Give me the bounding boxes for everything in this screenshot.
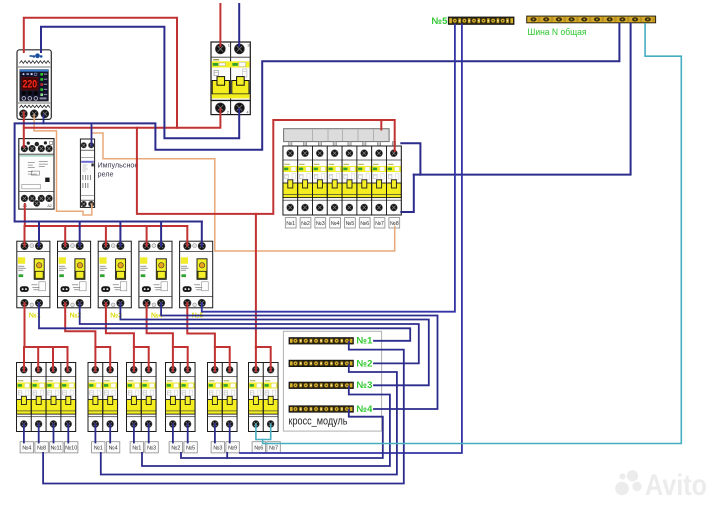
- wire blue: breaker neutral to label: [94, 424, 96, 443]
- wire blue: breaker neutral to label: [187, 424, 189, 443]
- circuit breaker group-row pole 8: [387, 146, 402, 215]
- circuit breaker bottom group 1 pole 3: [46, 363, 61, 432]
- wire red: relay to contactor feed: [23, 112, 25, 147]
- circuit breaker bottom group 6 pole 2: [263, 363, 278, 432]
- wire red: group3 bar and stub: [134, 347, 149, 371]
- svg-text:№1: №1: [94, 445, 103, 451]
- label №1 under row breaker: [285, 218, 296, 228]
- wire red: RCD2 out to group2: [65, 303, 95, 371]
- wire blue: link to N busbar: [414, 24, 631, 175]
- bottom group 4 outline: [166, 363, 196, 432]
- label №3 under bottom group 3: [145, 442, 158, 453]
- cross-module neutral bar №1: [289, 338, 353, 344]
- wire blue: breaker neutral to label: [214, 424, 216, 443]
- wire red: drop to RCD2 input: [64, 226, 66, 246]
- svg-text:№1: №1: [286, 221, 295, 227]
- svg-text:№4: №4: [109, 445, 118, 451]
- RCD (residual current device) №1: [17, 241, 50, 308]
- circuit breaker bottom group 1 pole 4: [61, 363, 76, 432]
- label №11 under bottom group 1: [50, 442, 63, 453]
- svg-text:Шина N общая: Шина N общая: [528, 27, 587, 38]
- svg-text:№3: №3: [147, 445, 156, 451]
- label №6 under bottom group 6: [252, 442, 265, 453]
- svg-text:№6: №6: [254, 445, 263, 451]
- bottom group 3 outline: [127, 363, 157, 432]
- busbar comb over group breakers: [284, 129, 396, 147]
- label №8 under bottom group 1: [35, 442, 48, 453]
- svg-text:№3: №3: [357, 380, 373, 391]
- wire blue: bar №2 to bottom group2 neutrals: [101, 365, 397, 475]
- svg-text:№7: №7: [375, 221, 384, 227]
- wire red: group1 bar: [25, 346, 68, 348]
- label №8 under row breaker: [389, 218, 400, 228]
- svg-text:A2: A2: [47, 204, 51, 208]
- svg-text:№1: №1: [357, 336, 374, 347]
- wire blue: relay top to QF1 bottom loop: [41, 27, 239, 139]
- wire blue: breaker neutral to label: [38, 424, 40, 443]
- circuit breaker bottom group 2 pole 2: [103, 363, 118, 432]
- wire blue: bar №3 to bottom group3 neutrals: [142, 387, 390, 467]
- wire red: group6 bar and stub: [256, 347, 271, 371]
- label №7 under row breaker: [374, 218, 385, 228]
- label №10 under bottom group 1: [65, 442, 78, 453]
- wire red: QF1 output bus: [24, 109, 221, 128]
- svg-text:№3: №3: [316, 221, 325, 227]
- label №4 under bottom group 2: [106, 442, 119, 453]
- cross-module neutral bar №3: [289, 382, 353, 388]
- circuit breaker group-row pole 4: [327, 146, 342, 215]
- label №5 under row breaker: [345, 218, 356, 228]
- wire blue: bar №4 to bottom group4 neutrals: [181, 410, 383, 458]
- wire red: main riser to bottom group 6: [137, 128, 256, 348]
- svg-text:№2: №2: [357, 358, 373, 369]
- circuit breaker bottom group 2 pole 1: [88, 363, 103, 432]
- wire blue: breaker neutral to label: [23, 424, 25, 443]
- wire red: stub into comb: [380, 120, 382, 130]
- wire red: RCD1 out to group1 bar: [24, 303, 26, 347]
- wire blue: drop to RCD1 neutral in: [38, 222, 40, 247]
- busbar N (Шина N общая): [527, 16, 656, 23]
- wire blue: drop to impulse relay coil: [91, 123, 93, 146]
- circuit breaker bottom group 3 pole 2: [141, 363, 156, 432]
- wire red: drop to RCD4 input: [146, 226, 148, 246]
- wire orange: impulse relay to circuit 8: [92, 133, 395, 251]
- cross-module neutral bar №2: [289, 360, 353, 366]
- RCD (residual current device) №3: [98, 241, 131, 308]
- wire blue: relay neutral stub: [43, 115, 45, 123]
- label №4 under bottom group 1: [20, 442, 33, 453]
- label №7 under bottom group 6: [267, 442, 280, 453]
- wire blue: drop to RCD4 neutral in: [160, 222, 162, 247]
- wire blue: supply neutral to QF1 top: [238, 4, 240, 46]
- bottom group 5 outline: [208, 363, 238, 432]
- label №5 under bottom group 4: [184, 442, 197, 453]
- wire blue: RCD3 neutral to bar №3: [120, 303, 428, 385]
- circuit breaker group-row pole 7: [372, 146, 387, 215]
- wire blue: breaker neutral to label: [133, 424, 135, 443]
- wire blue: breaker neutral to label: [148, 424, 150, 443]
- svg-text:№4: №4: [22, 445, 31, 451]
- label: impulse relay text: [98, 161, 139, 179]
- voltage relay A1: [17, 50, 51, 120]
- label №3 under row breaker: [315, 218, 326, 228]
- wire red: drop to RCD1 input: [24, 226, 26, 246]
- svg-text:№5: №5: [186, 445, 195, 451]
- wire blue: row top right link: [401, 143, 420, 174]
- wire red: phase bus over RCDs: [25, 225, 188, 227]
- bottom group 6 outline: [249, 363, 279, 432]
- svg-text:№9: №9: [228, 445, 237, 451]
- circuit breaker bottom group 4 pole 1: [166, 363, 181, 432]
- wire red: group1 stub to pole: [52, 347, 54, 371]
- wire blue: RCD2 neutral to bar №2: [80, 303, 419, 363]
- wire blue: breaker neutral to label: [172, 424, 174, 443]
- svg-text:№11: №11: [50, 445, 62, 451]
- svg-text:№7: №7: [269, 445, 278, 451]
- label №2 under bottom group 4: [169, 442, 182, 453]
- circuit breaker group-row pole 2: [298, 146, 313, 215]
- watermark: Avito logo: [615, 469, 707, 502]
- wire red: group2 bar and stub: [95, 347, 110, 371]
- label №9 under bottom group 5: [226, 442, 239, 453]
- label №3 under bottom group 5: [211, 442, 224, 453]
- wire blue: breaker neutral to label: [53, 424, 55, 443]
- impulse relay K1: [80, 139, 94, 207]
- svg-text:реле: реле: [98, 170, 114, 179]
- circuit breaker bottom group 5 pole 2: [222, 363, 237, 432]
- circuit breaker bottom group 3 pole 1: [127, 363, 142, 432]
- svg-text:№5: №5: [432, 16, 449, 27]
- svg-text:№4: №4: [357, 404, 374, 415]
- circuit breaker group-row pole 1: [283, 146, 298, 215]
- bottom group 2 outline: [88, 363, 118, 432]
- circuit breaker group-row pole 5: [342, 146, 357, 215]
- wire red: feed to comb row: [256, 120, 395, 214]
- svg-text:№3: №3: [213, 445, 222, 451]
- svg-text:№8: №8: [37, 445, 46, 451]
- svg-text:№6: №6: [360, 221, 369, 227]
- wire blue: RCD5 neutral to busbar №5: [202, 24, 455, 311]
- svg-text:220: 220: [23, 78, 38, 90]
- wire blue: bar №1 to bottom group1 neutrals: [43, 342, 404, 484]
- label №1 under bottom group 3: [130, 442, 143, 453]
- RCD (residual current device) №5: [180, 241, 213, 308]
- wire red: RCD5 out to group5: [187, 303, 215, 371]
- wire blue: breaker neutral to label: [229, 424, 231, 443]
- wire red: group1 stub to pole: [37, 347, 39, 371]
- circuit breaker group-row pole 3: [313, 146, 328, 215]
- wire red: group1 stub to pole: [23, 347, 25, 371]
- wire blue: drop to RCD5 neutral in: [201, 222, 203, 247]
- wire red: voltage relay top to QF1 bottom loop: [24, 18, 177, 128]
- circuit breaker bottom group 1 pole 1: [17, 363, 32, 432]
- contactor KM1: [19, 139, 54, 210]
- circuit breaker QF1 (2-pole main): [211, 42, 250, 115]
- wire blue: stub group5 neutral: [226, 453, 228, 458]
- wire red: RCD3 out to group3: [106, 303, 134, 371]
- wire blue: busbar №5 second feeder: [240, 24, 462, 453]
- busbar №5: [448, 17, 514, 24]
- wire blue: drop to RCD3 neutral in: [119, 222, 121, 247]
- bottom group 1 outline: [17, 363, 76, 432]
- cross module box: [283, 331, 381, 431]
- wire blue: N busbar to neutral bus over RCDs: [15, 24, 620, 222]
- wire blue: row bottom right link: [401, 175, 414, 212]
- wire orange: relay aux to impulse relay bottom: [34, 115, 92, 215]
- svg-text:№2: №2: [301, 221, 310, 227]
- svg-text:№2: №2: [171, 445, 180, 451]
- wire red: contactor out down: [24, 204, 26, 226]
- wire red: drop to RCD3 input: [105, 226, 107, 246]
- wire red: group4 bar and stub: [173, 347, 188, 371]
- wire blue: drop to RCD2 neutral in: [79, 222, 81, 247]
- wire teal: group6 neutral to N busbar: [263, 24, 682, 444]
- wire blue: breaker neutral to label: [109, 424, 111, 443]
- label №4 under row breaker: [330, 218, 341, 228]
- wire red: RCD4 out to group4: [147, 303, 173, 371]
- wire blue: RCD1 neutral to bar №1: [39, 303, 410, 341]
- circuit breaker bottom group 6 pole 1: [249, 363, 264, 432]
- label №2 under row breaker: [300, 218, 311, 228]
- circuit breaker bottom group 4 pole 2: [180, 363, 195, 432]
- RCD (residual current device) №4: [139, 241, 172, 308]
- svg-text:№4: №4: [331, 221, 340, 227]
- wire red: drop to RCD5 input: [186, 226, 188, 246]
- label №1 under bottom group 2: [92, 442, 105, 453]
- svg-text:№5: №5: [346, 221, 355, 227]
- cross-module neutral bar №4: [289, 406, 353, 412]
- wire red: group6 stub to pole: [255, 347, 257, 371]
- svg-text:Импульсное: Импульсное: [98, 161, 139, 170]
- svg-text:Avito: Avito: [645, 469, 707, 502]
- svg-text:№1: №1: [132, 445, 141, 451]
- wire red: supply phase to QF1 top: [219, 4, 221, 46]
- svg-text:№10: №10: [65, 445, 77, 451]
- wire red: group1 stub to pole: [67, 347, 69, 371]
- circuit breaker bottom group 5 pole 1: [208, 363, 223, 432]
- wire blue: breaker neutral to label: [67, 424, 69, 443]
- group breaker row outline: [283, 146, 401, 215]
- circuit breaker group-row pole 6: [357, 146, 372, 215]
- label №6 under row breaker: [359, 218, 370, 228]
- svg-text:кросс_модуль: кросс_модуль: [289, 416, 348, 428]
- wire red: group5 bar and stub: [215, 347, 230, 371]
- wire blue: RCD4 neutral to bar №4: [161, 303, 437, 409]
- wire teal: group6 neutral U-link: [256, 424, 271, 440]
- circuit breaker bottom group 1 pole 2: [31, 363, 46, 432]
- RCD (residual current device) №2: [58, 241, 91, 308]
